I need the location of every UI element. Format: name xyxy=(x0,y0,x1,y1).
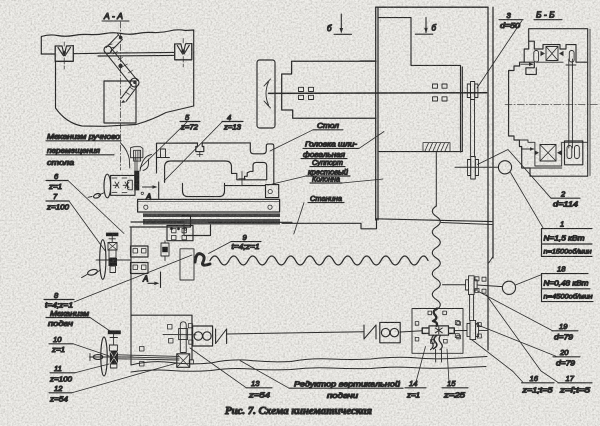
saddle plateau xyxy=(165,161,267,186)
worm gearbox xyxy=(422,326,454,335)
leader 20 xyxy=(477,325,557,357)
upper handwheel bevel xyxy=(106,233,118,242)
head bearings left xyxy=(299,87,314,99)
bed guideway bar xyxy=(138,199,280,212)
table clamp left xyxy=(55,42,73,69)
bevel gear z13 housing xyxy=(131,147,143,171)
column left ledge line xyxy=(360,60,376,62)
motor 1 shaft xyxy=(455,166,498,168)
coupling right circles xyxy=(380,322,400,342)
bed break line upper xyxy=(131,357,487,366)
gearbox vertical feed housing xyxy=(412,309,463,354)
worm gear 9 xyxy=(161,241,169,261)
label 18 motor box xyxy=(542,265,594,302)
shaft pulley 19 motor xyxy=(443,285,503,287)
body window rect xyxy=(104,81,136,123)
label 20 d=79 xyxy=(553,348,580,368)
lower handwheel bevel xyxy=(108,330,121,345)
section arrow A upper xyxy=(141,182,159,202)
saddle hump right of rack xyxy=(140,155,152,172)
belt vertical feed xyxy=(470,295,474,321)
label 11 z=100 xyxy=(49,364,75,384)
bearing bracket rack xyxy=(128,180,133,190)
section arrow b right xyxy=(415,18,436,35)
label 9 t=4 z=1 xyxy=(231,233,261,251)
label 17 xyxy=(558,374,592,395)
pulley 20 xyxy=(467,320,488,339)
centerline A-A xyxy=(120,22,122,170)
gear housing manual drive xyxy=(111,175,135,195)
leader 6 xyxy=(68,181,124,234)
BB arrow bottom left xyxy=(522,147,535,151)
section arrow A lower xyxy=(142,272,161,288)
lever arm top xyxy=(106,33,122,51)
lower shaft and screw xyxy=(96,355,180,360)
BB housing outer xyxy=(509,29,590,177)
BB gear bottom right pair xyxy=(567,146,579,159)
leader 8 xyxy=(74,255,192,302)
spindle line xyxy=(269,92,487,95)
leader 3 xyxy=(477,21,522,89)
BB gear top right xyxy=(569,51,574,63)
bearing block upper right a xyxy=(131,246,149,257)
label 15 z=25 xyxy=(442,379,468,399)
belt spindle drive xyxy=(471,100,475,158)
label mechanism table-move xyxy=(46,132,121,167)
lever fulcrum dot xyxy=(118,64,122,68)
label reducer xyxy=(289,379,403,399)
lower box top edge xyxy=(131,315,192,360)
leader 5 xyxy=(140,122,187,168)
handwheel manual table drive xyxy=(88,174,111,199)
BB arrow top left xyxy=(521,62,534,66)
pulley 3 spindle xyxy=(467,82,478,100)
pulley 2 motor xyxy=(468,157,479,180)
body A-A outline xyxy=(56,52,194,126)
label mechanism feeds xyxy=(46,309,90,328)
lever arm main xyxy=(104,46,139,87)
leader stanina xyxy=(294,203,304,234)
flexible shaft horizontal xyxy=(210,256,428,265)
small squares lower box xyxy=(140,325,174,367)
leader reducer xyxy=(240,361,289,389)
label 13 z=54 xyxy=(246,379,272,399)
housing left vertical xyxy=(130,227,132,365)
label 14 z=1 xyxy=(405,379,426,399)
hatch pad under column xyxy=(423,143,450,152)
label 6 z=1 xyxy=(46,172,68,191)
head bearings right xyxy=(433,84,448,101)
upper handwheel gear stack xyxy=(108,243,117,273)
BB housing lower internal xyxy=(519,140,587,168)
flex shaft coil inside gearbox xyxy=(433,309,437,327)
shaft coupling to worm xyxy=(400,331,422,332)
grinding wheel xyxy=(257,60,275,128)
label 16 xyxy=(521,374,554,395)
clutch right xyxy=(364,325,376,339)
saddle lower tray xyxy=(183,184,279,198)
label 7 z=100 xyxy=(46,192,69,212)
leader 9 xyxy=(209,242,232,254)
leader 7 xyxy=(69,201,106,252)
section title A-A xyxy=(102,11,129,21)
pinion shaft right xyxy=(163,333,196,335)
grinding head block xyxy=(282,61,376,118)
BB gear top left xyxy=(534,51,539,63)
section arrow b left xyxy=(327,14,352,34)
leader 13 xyxy=(190,348,246,388)
label 19 d=79 xyxy=(552,322,578,342)
label 10 z=1 xyxy=(49,335,73,354)
bed break line lower xyxy=(131,367,486,373)
label golovka xyxy=(301,140,359,159)
lead screw dark band xyxy=(143,213,280,224)
long feed shaft xyxy=(227,332,364,334)
lever arm bottom xyxy=(121,85,137,104)
leader 12 xyxy=(72,363,177,393)
table A-A outline xyxy=(41,30,193,56)
label 5 z=72 xyxy=(180,113,200,132)
leader kolonna xyxy=(342,179,383,183)
leader 4 xyxy=(164,122,222,181)
flex shaft bracket xyxy=(180,249,194,280)
label kolonna xyxy=(310,174,342,183)
flexible shaft vertical xyxy=(432,206,440,310)
coil strands below worm xyxy=(431,335,443,350)
table profile top band xyxy=(157,143,274,185)
label 3 d=50 xyxy=(499,11,523,30)
pulley 19 xyxy=(466,276,478,295)
leader golovka xyxy=(359,132,384,149)
shaft worm to pulley xyxy=(454,330,467,332)
leader 15 xyxy=(447,349,449,383)
bearing block upper right b xyxy=(131,263,149,274)
leader mechanism feeds xyxy=(90,318,110,332)
vertical gear shaft z54 xyxy=(177,322,194,368)
screw exit below gearbox xyxy=(436,350,442,363)
upper handwheel xyxy=(82,240,106,280)
coupling left circles xyxy=(193,326,213,346)
bolt squares pulley 20 xyxy=(455,321,481,338)
flex shaft coil 9 xyxy=(195,254,210,265)
BB bevel gear bottom xyxy=(535,145,562,162)
BB bevel gear top xyxy=(541,47,564,61)
leader 19 xyxy=(478,291,554,331)
motor 1 circle xyxy=(498,161,511,174)
label stol xyxy=(313,121,343,130)
section title B-B xyxy=(534,10,562,20)
upper handwheel shaft xyxy=(96,259,131,261)
bed under profile xyxy=(131,222,292,236)
housing top edge xyxy=(130,216,191,228)
column right edges xyxy=(488,7,493,350)
lower handwheel xyxy=(90,337,108,376)
label 1 motor box xyxy=(542,220,593,257)
label 4 z=13 xyxy=(222,113,243,132)
label stanina xyxy=(308,194,344,203)
leader stol xyxy=(270,130,313,151)
clutch left xyxy=(216,329,227,344)
motor 18 circle xyxy=(502,281,515,294)
vertical feed screw line xyxy=(435,152,437,206)
leader 18 xyxy=(515,275,541,285)
leader 16 xyxy=(472,340,524,383)
leader 1 xyxy=(511,173,544,228)
column front outline xyxy=(376,7,488,220)
leader 17 xyxy=(486,295,558,383)
BB centerline xyxy=(505,103,598,105)
bed top line right xyxy=(377,219,493,222)
lower handwheel gear stack xyxy=(109,345,118,368)
label 2 d=114 xyxy=(551,189,580,208)
leader 10 xyxy=(73,344,109,356)
leader 2 xyxy=(478,150,552,199)
BB sleeve verticals xyxy=(569,59,573,148)
worm housing 9 xyxy=(167,226,193,241)
label 8 t4z1 xyxy=(44,291,74,310)
leader 14 xyxy=(416,347,426,383)
column foot step and bed front edge xyxy=(282,219,377,229)
label support xyxy=(306,158,350,176)
bolt squares pulley 19 xyxy=(475,277,486,293)
BB housing upper internal xyxy=(524,41,588,74)
leader 11 xyxy=(75,364,109,373)
rack z=100 black xyxy=(134,171,139,191)
label to mechanism connector xyxy=(121,144,130,169)
leader support xyxy=(268,176,306,185)
table clamp right xyxy=(175,39,192,68)
label 12 z=54 xyxy=(49,384,72,404)
